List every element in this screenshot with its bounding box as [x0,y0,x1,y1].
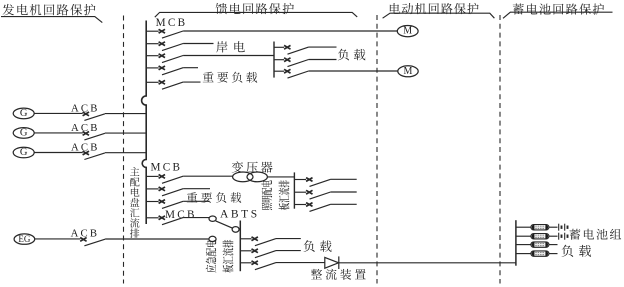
rectifier diode D1 [325,256,339,269]
label: battery circuit protection header [513,3,604,14]
label: load (负载) emergency [304,240,332,252]
motor M2 [398,66,418,77]
battery cells on branch at y=236.2 [559,233,568,240]
battery cells on branch at y=227.2 [559,224,568,231]
label: transformer (变压器) [232,161,273,173]
breaker ACB-EG + wire from EG to ABTS [35,238,209,246]
wire: transformer output to lighting sub-bus [267,176,294,178]
motor M1 [397,26,418,37]
svg-text:G: G [20,108,28,119]
generator G3 [13,147,34,158]
svg-text:MCB: MCB [156,17,188,29]
label: load (负载) on sub-bus 1 [338,49,366,61]
emergency generator EG [14,234,35,244]
load distribution sub-busbar 1 [273,42,275,78]
breaker ACB-G2 + wire from generator G2 to main bus [34,132,146,140]
ABTS changeover switch (contacts + blade) [209,216,239,242]
breaker S2 load feeder + wire [274,58,337,67]
breaker MCB-T1 feeder to motor M1 + wire [146,29,397,38]
main switchboard busbar [142,21,147,225]
emergency switchboard busbar [239,221,241,272]
svg-text:MCB: MCB [151,162,183,174]
label: important load (重要负载) [203,72,257,83]
breaker MCB-T4 important load feeder + wire [146,66,198,75]
breaker MCB-T2 shore power feeder + wire [146,42,213,51]
breaker MCB-L3 important load feeder + wire [146,200,209,209]
label: load (负载) battery section [562,245,591,257]
fuse F1 + battery branch 1 [516,225,558,230]
breaker MCB-L2 feeder + wire [146,187,210,196]
label: feeder circuit protection header [216,3,294,14]
battery switchboard busbar [515,220,517,266]
label: important load (重要负载) lower [187,192,241,203]
fuse F4 + load branch 4 [516,251,558,256]
generator G2 [13,127,34,138]
brace: motor section [383,13,495,18]
vertical label: emergency distribution board busbar (应急配电板汇流排) [206,240,234,273]
fuse F2 + battery branch 2 [516,234,558,239]
breaker P2 lighting feeder + wire [294,190,356,199]
vertical label: lighting distribution board busbar (照明配电板汇流排) [261,180,289,210]
breaker E3 feeder to rectifier + wire [240,261,324,270]
wire: rectifier output to battery busbar [339,262,516,264]
breaker S3 feeder to motor M2 + wire [274,69,398,78]
dashed separator 2 [376,15,378,284]
vertical label: main switchboard busbar (主配电盘汇流排) [130,167,139,176]
label: battery bank (蓄电池组) [569,229,621,240]
breaker E1 emergency load feeder + wire [240,237,300,246]
svg-text:G: G [20,127,28,138]
label: rectifier unit (整流装置) [311,269,366,280]
svg-text:M: M [403,26,412,37]
label: generator circuit protection header [3,4,96,15]
breaker ACB-G3 + wire from generator G3 to main bus [34,151,146,159]
breaker ACB-G1 + wire from generator G1 to main bus [34,112,146,120]
lighting distribution sub-busbar 2 [293,172,295,208]
underline: battery section [503,12,613,18]
dashed separator 1 [123,16,125,284]
fuse F3 + load branch 3 [516,242,558,247]
breaker E2 emergency load feeder + wire [240,249,300,258]
breaker P1 lighting feeder + wire [294,178,356,187]
svg-text:ABTS: ABTS [220,209,260,221]
breaker MCB-T3 feeder to distribution sub-bus + wire [146,54,274,63]
breaker P3 lighting feeder + wire [294,203,356,212]
transformer T1 (two windings) [233,172,268,182]
breaker MCB-L4 feeder to ABTS + wire [146,216,209,225]
breaker MCB-L1 transformer feeder + wire [146,175,233,184]
generator G1 [13,108,34,119]
svg-text:M: M [404,66,413,77]
svg-text:EG: EG [18,234,30,244]
breaker S1 load feeder + wire [274,45,337,54]
brace: feeder section [155,12,357,17]
svg-text:MCB: MCB [165,209,197,221]
label: motor circuit protection header [390,3,479,14]
underline: generator section [1,17,102,23]
breaker MCB-T5 spare feeder + wire [146,80,200,89]
dashed separator 3 [499,15,501,284]
svg-text:G: G [20,147,28,158]
label: shore power (岸电) [216,41,244,52]
